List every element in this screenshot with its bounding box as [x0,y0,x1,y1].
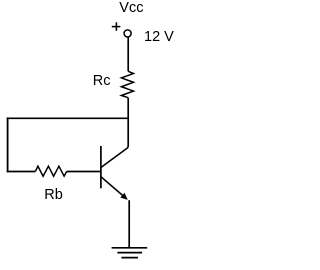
wire: Rb to base [67,171,101,173]
transistor Q1 collector diagonal [101,147,128,168]
wire: Rc bottom to collector node [127,98,129,119]
wire: collector lead vertical [127,118,129,147]
svg-text:Rb: Rb [44,187,63,203]
transistor Q1 emitter arrowhead [120,193,127,200]
wire: emitter lead to ground [128,200,130,247]
wire: terminal to Rc top [127,37,129,71]
svg-text:Rc: Rc [93,73,111,89]
wire: base wire left segment [7,171,36,173]
svg-text:Vcc: Vcc [119,0,143,16]
resistor Rb [35,166,66,176]
resistor Rc [121,71,133,97]
svg-text:12 V: 12 V [144,29,174,45]
wire: feedback top horizontal [7,117,129,119]
terminal circle (Vcc supply) [124,30,131,37]
transistor Q1 base bar [100,146,102,188]
polarity plus sign [112,22,121,31]
wire: feedback left vertical [7,117,9,172]
ground symbol [112,248,148,258]
transistor Q1 emitter diagonal [101,177,127,199]
